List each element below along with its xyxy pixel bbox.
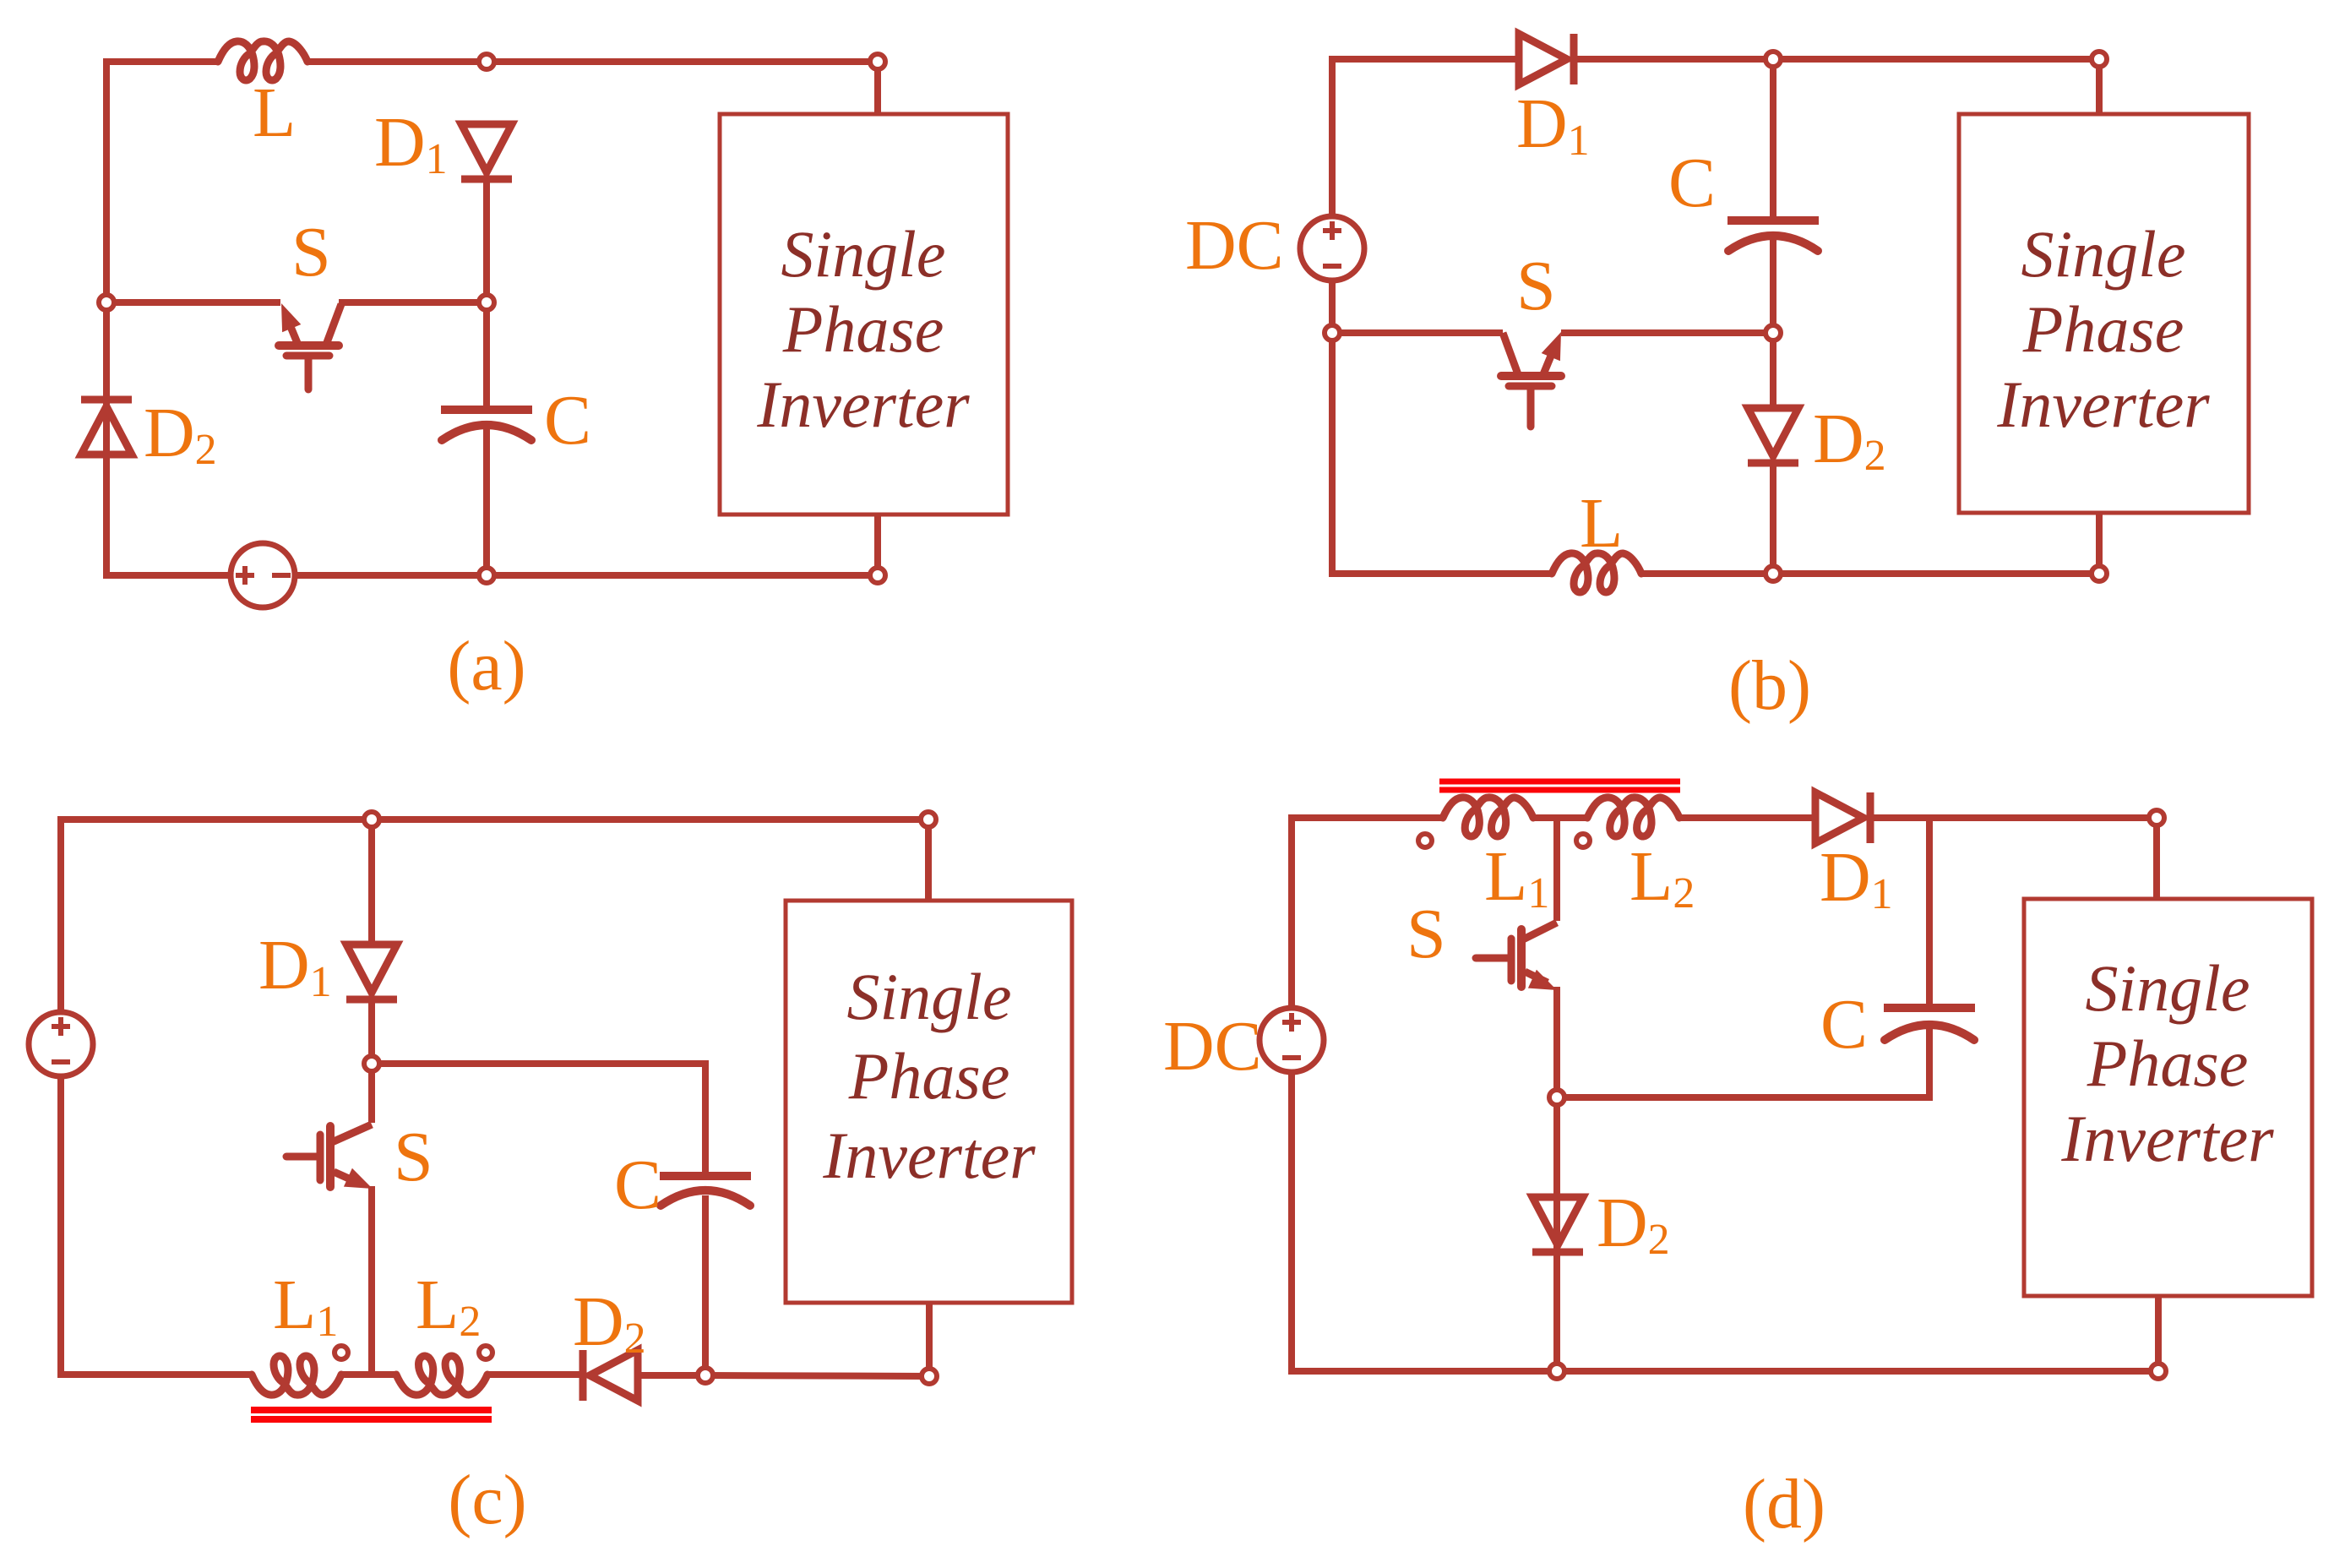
svg-text:(a): (a) [447,627,525,705]
svg-text:(c): (c) [448,1461,526,1539]
svg-text:Inverter: Inverter [2060,1102,2274,1175]
svg-text:Inverter: Inverter [1996,367,2210,441]
svg-text:C: C [1668,144,1716,222]
svg-text:Phase: Phase [2087,1026,2249,1100]
svg-text:(b): (b) [1728,646,1811,725]
svg-text:Phase: Phase [2022,292,2184,366]
svg-text:(d): (d) [1743,1465,1825,1543]
svg-text:L: L [1580,484,1623,563]
svg-text:L: L [253,73,296,152]
svg-text:DC: DC [1163,1007,1262,1086]
svg-text:S: S [291,213,331,291]
svg-text:Single: Single [2086,951,2250,1025]
svg-text:C: C [544,381,591,460]
svg-text:Phase: Phase [848,1039,1010,1113]
svg-text:Single: Single [847,960,1012,1033]
svg-text:S: S [1516,247,1556,325]
svg-text:Phase: Phase [782,292,944,366]
svg-text:Single: Single [2021,217,2186,291]
svg-text:Single: Single [781,217,946,291]
svg-text:Inverter: Inverter [756,367,970,441]
svg-text:C: C [1820,985,1868,1064]
svg-text:S: S [394,1118,433,1196]
svg-text:S: S [1406,895,1446,973]
svg-text:C: C [614,1146,661,1224]
svg-text:Inverter: Inverter [822,1119,1036,1192]
svg-text:DC: DC [1185,206,1284,285]
